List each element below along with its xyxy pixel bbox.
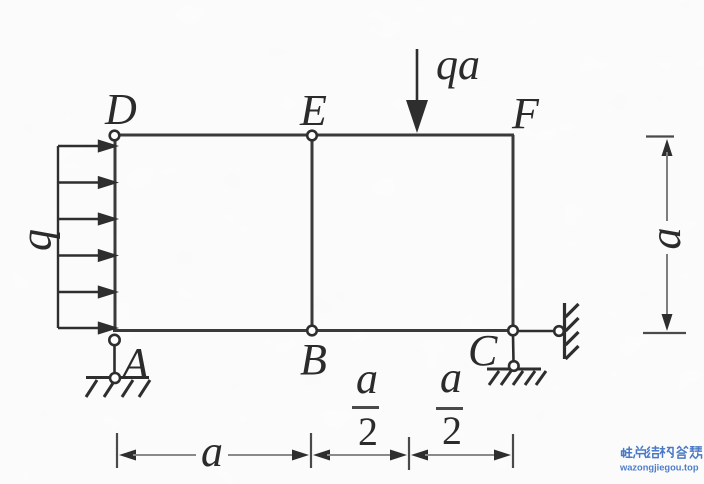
- node D hinge: [110, 131, 120, 141]
- bottom dimension ticks: [117, 433, 513, 470]
- svg-text:D: D: [104, 85, 137, 134]
- point load qa arrow: [406, 49, 428, 133]
- support C wall with hatching: [565, 303, 579, 359]
- dimension a/2 second: [411, 353, 511, 461]
- svg-text:F: F: [511, 89, 540, 138]
- watermark chinese text: [622, 446, 702, 458]
- svg-text:B: B: [300, 335, 327, 384]
- distributed load q arrows: [58, 141, 115, 333]
- svg-text:E: E: [299, 86, 327, 135]
- svg-text:qa: qa: [436, 40, 480, 89]
- member DF top chord: [113, 134, 514, 137]
- support A lower hinge: [110, 373, 120, 383]
- node C hinge: [508, 326, 518, 336]
- node E hinge: [307, 131, 317, 141]
- svg-text:C: C: [468, 326, 498, 375]
- svg-text:a: a: [440, 353, 462, 402]
- dimension a right side: [641, 137, 690, 334]
- support C vertical link: [512, 335, 515, 362]
- member DA left column: [114, 135, 117, 330]
- svg-text:2: 2: [442, 408, 462, 453]
- svg-text:a: a: [356, 354, 378, 403]
- support C wall hinge: [554, 326, 564, 336]
- svg-text:a: a: [641, 228, 690, 250]
- dimension a/2 first: [313, 354, 407, 461]
- svg-text:wazongjiegou.top: wazongjiegou.top: [619, 463, 699, 473]
- member FC right column: [512, 135, 515, 330]
- node B hinge: [307, 326, 317, 336]
- support A link: [113, 341, 116, 378]
- svg-text:A: A: [119, 339, 150, 388]
- dimension a bottom: [119, 427, 309, 476]
- load label q (rotated): [12, 229, 61, 251]
- support C horizontal link: [518, 330, 554, 333]
- svg-text:a: a: [201, 427, 223, 476]
- svg-text:2: 2: [358, 409, 378, 454]
- support A upper hinge: [109, 335, 119, 345]
- member AC bottom chord: [113, 329, 514, 332]
- member EB middle column: [311, 136, 314, 330]
- svg-text:q: q: [12, 229, 61, 251]
- support A ground: [86, 378, 150, 398]
- support C lower hinge: [509, 361, 519, 371]
- support C ground: [487, 369, 546, 385]
